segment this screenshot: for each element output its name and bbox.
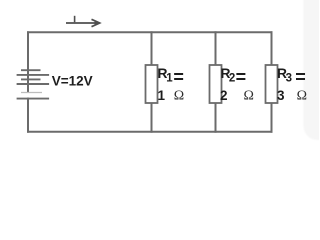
battery V1 short plate 1 <box>21 69 41 71</box>
resistor R1 box <box>146 65 158 103</box>
svg-text:Ω: Ω <box>174 89 184 104</box>
wire: R3 branch vertical (right side) <box>271 32 273 131</box>
svg-text:2: 2 <box>220 88 228 103</box>
svg-text:Ω: Ω <box>244 89 254 104</box>
battery V1 (multi-cell) <box>17 70 50 98</box>
battery V1 long plate 2 <box>17 83 50 85</box>
resistor R3 box <box>266 65 278 103</box>
svg-text:Ω: Ω <box>297 89 307 104</box>
resistor R2 box <box>210 65 222 103</box>
current direction arrowhead <box>92 19 100 26</box>
svg-text:=: = <box>173 67 184 87</box>
wire: R2 branch vertical <box>215 32 217 131</box>
wire: bottom horizontal return <box>28 131 272 133</box>
svg-text:3: 3 <box>277 88 285 103</box>
battery V1 short plate 3 (faint) <box>21 92 42 94</box>
current label I tick <box>74 16 76 22</box>
svg-text:1: 1 <box>166 72 173 84</box>
background card edge (gray bar peeking at right) <box>0 0 319 158</box>
wire: left vertical lower (battery bottom lead) <box>27 99 29 132</box>
battery V1 long plate 1 <box>17 74 50 76</box>
current direction arrow shaft <box>66 22 96 24</box>
battery V1 long plate 3 <box>17 98 50 100</box>
wire: top horizontal from battery to R3 branch <box>28 31 272 33</box>
svg-text:V=12V: V=12V <box>52 73 93 88</box>
wire: R1 branch vertical <box>151 32 153 131</box>
wire: left vertical upper (battery top lead) <box>27 32 29 92</box>
svg-text:2: 2 <box>229 72 235 84</box>
svg-text:=: = <box>236 67 247 87</box>
svg-text:3: 3 <box>286 72 292 84</box>
svg-text:=: = <box>295 67 306 87</box>
battery V1 short plate 2 <box>21 78 41 80</box>
svg-text:1: 1 <box>158 88 166 103</box>
